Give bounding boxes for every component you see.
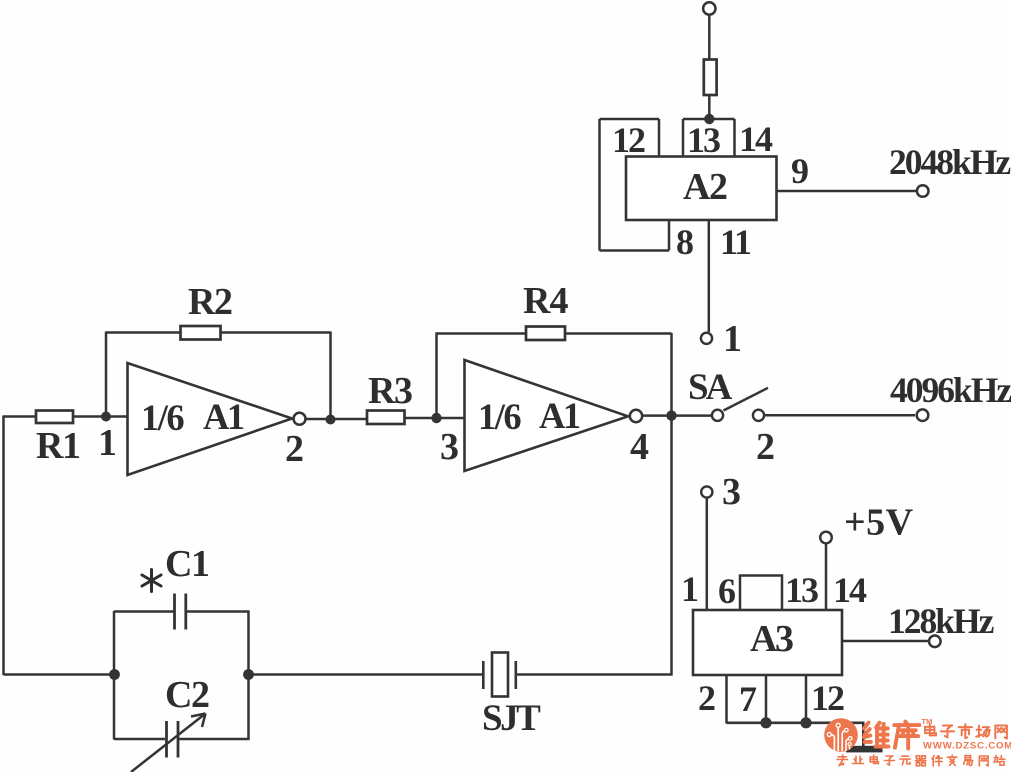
svg-text:C1: C1 xyxy=(165,543,209,585)
svg-text:+5V: +5V xyxy=(844,502,914,544)
terminal 128kHz xyxy=(929,636,941,648)
wire: R1 to node 1 xyxy=(73,415,128,418)
switch SA contact 3 (to A3 pin 1) xyxy=(701,486,712,497)
wire: R3 to node 3 xyxy=(404,417,465,420)
wire: A3 pin 2 xyxy=(725,675,728,724)
inverter U1a output bubble xyxy=(294,413,306,425)
jumper box on A3 pins 6-13 xyxy=(740,576,782,611)
svg-text:8: 8 xyxy=(676,222,693,262)
svg-text:4096kHz: 4096kHz xyxy=(890,370,1011,410)
watermark text 维库 xyxy=(864,723,889,747)
svg-text:12: 12 xyxy=(612,120,645,160)
svg-text:2: 2 xyxy=(285,428,303,470)
wire: A3 pin 12 xyxy=(805,675,808,724)
wire: resistor to node 13/14 xyxy=(708,95,711,119)
watermark text 专业电子元器件交易网站 xyxy=(837,755,848,766)
wire: C-box left leg xyxy=(113,611,116,740)
svg-text:SJT: SJT xyxy=(482,698,541,739)
wire: A3 bottom tie bar to ground xyxy=(727,721,865,724)
wire: C-box top (right of C1) xyxy=(187,610,250,613)
resistor R3 xyxy=(367,411,405,425)
IC A3 xyxy=(693,610,842,675)
svg-text:12: 12 xyxy=(811,678,844,718)
svg-text:4: 4 xyxy=(630,426,649,468)
watermark logo circle xyxy=(824,718,858,752)
svg-text:A1: A1 xyxy=(539,395,580,436)
wire: left vertical rail xyxy=(2,416,5,675)
terminal +5V xyxy=(820,532,832,544)
svg-text:2: 2 xyxy=(756,426,774,468)
svg-text:14: 14 xyxy=(739,119,773,159)
svg-text:3: 3 xyxy=(722,471,740,513)
wire: feedback/crystal right vertical rail xyxy=(670,333,673,676)
svg-text:SA: SA xyxy=(688,367,733,408)
variable capacitor C2 arrow xyxy=(131,714,206,772)
wire: crystal to right rail xyxy=(517,673,673,676)
resistor R2 xyxy=(181,326,221,340)
crystal SJT body xyxy=(492,653,508,697)
svg-text:3: 3 xyxy=(440,426,458,468)
wire: left rail to R1 xyxy=(3,415,38,418)
wire: A2 pin 12 loop top xyxy=(600,118,660,121)
ground xyxy=(846,746,883,753)
wire: R4 feedback top xyxy=(436,332,672,335)
wire: C-box bottom (left of C2) xyxy=(114,738,165,741)
wire: A2 pin 8 xyxy=(668,220,671,251)
op-amp inverter U1a (1/6 A1) xyxy=(128,363,293,475)
svg-text:R3: R3 xyxy=(368,370,412,412)
svg-text:1: 1 xyxy=(723,318,741,360)
wire: C-box right leg xyxy=(247,611,250,740)
op-amp inverter U1b (1/6 A1) xyxy=(465,360,629,471)
svg-text:2048kHz: 2048kHz xyxy=(889,142,1010,182)
junction dot at pin2 node xyxy=(326,415,336,425)
svg-text:A1: A1 xyxy=(203,396,244,437)
node: C-box right junction xyxy=(243,669,254,680)
svg-text:9: 9 xyxy=(791,151,808,191)
resistor R4 xyxy=(526,327,565,341)
svg-text:C2: C2 xyxy=(165,674,209,716)
watermark text 电子市场网 xyxy=(925,724,936,735)
svg-text:11: 11 xyxy=(720,222,751,262)
node 1 (junction dot) xyxy=(101,412,111,422)
wire: R2 feedback right leg xyxy=(329,332,332,420)
switch SA contact 2 xyxy=(753,410,764,421)
svg-text:1: 1 xyxy=(98,422,116,464)
wire: bubble pin2 to node xyxy=(305,418,368,421)
wire: C-box bottom (right of C2) xyxy=(179,738,250,741)
wire: A2 pin 14 xyxy=(733,119,736,157)
wire: pin12-pin8 loop bottom xyxy=(600,249,670,252)
capacitor C2 plates (variable) xyxy=(165,721,168,758)
wire: A2 pin 11 down to contact 1 xyxy=(708,220,711,332)
wire: +5V to A3 pin 14 xyxy=(825,543,828,610)
wire: terminal to resistor xyxy=(708,15,711,60)
IC A2 xyxy=(626,157,777,221)
wire: pin4 to SA xyxy=(642,414,712,417)
svg-text:A3: A3 xyxy=(750,618,793,660)
wire: C-box top (left of C1) xyxy=(114,610,174,613)
node 3 (junction dot) xyxy=(431,413,441,423)
svg-text:R1: R1 xyxy=(36,425,80,467)
junction dot A3 pin 12 xyxy=(800,717,811,728)
wire: A2 pin 13 xyxy=(682,119,685,157)
crystal SJT right plate xyxy=(514,661,517,689)
junction dot A3 pin 7 xyxy=(760,717,771,728)
watermark logo circuit traces xyxy=(827,723,852,751)
terminal 2048kHz xyxy=(917,185,929,197)
wire: pins 13-14 tie bar xyxy=(683,118,735,121)
asterisk mark near C1 xyxy=(142,570,161,592)
wire: contact 3 to A3 xyxy=(706,498,709,610)
terminal: top supply xyxy=(703,2,715,14)
wire: rail to C-box xyxy=(4,673,116,676)
switch SA common contact xyxy=(712,410,723,421)
wire: A2 pin 9 output xyxy=(777,190,917,193)
wire: R2 feedback left leg xyxy=(105,332,108,417)
svg-text:R4: R4 xyxy=(523,280,568,322)
capacitor C1 plates xyxy=(173,594,176,630)
resistor (vertical, above A2) xyxy=(704,60,717,96)
svg-text:128kHz: 128kHz xyxy=(888,601,994,641)
wire: R4 feedback left leg xyxy=(435,333,438,419)
junction dot above A2 pin13 xyxy=(704,114,714,124)
node: C-box left junction xyxy=(109,669,120,680)
svg-text:14: 14 xyxy=(833,570,867,610)
node 4 (junction dot) xyxy=(666,410,676,420)
terminal 4096kHz xyxy=(917,409,929,421)
svg-text:13: 13 xyxy=(687,120,720,160)
svg-text:13: 13 xyxy=(785,570,818,610)
svg-text:A2: A2 xyxy=(683,166,727,208)
wire: pin12-pin8 loop left leg xyxy=(598,119,601,251)
svg-text:1/6: 1/6 xyxy=(141,397,184,438)
svg-text:1/6: 1/6 xyxy=(478,396,521,437)
wire: A2 pin 12 stub xyxy=(658,119,661,157)
wire: A3 pin 7 xyxy=(765,675,768,724)
resistor R1 xyxy=(36,411,73,424)
svg-text:2: 2 xyxy=(698,678,715,718)
svg-text:R2: R2 xyxy=(188,281,232,323)
crystal SJT left plate xyxy=(482,661,485,689)
wire: R2 feedback top xyxy=(106,331,331,334)
svg-text:WWW.DZSC.COM: WWW.DZSC.COM xyxy=(923,741,1011,752)
switch SA contact 1 (to A2 pin 11) xyxy=(701,333,712,344)
svg-text:6: 6 xyxy=(718,571,735,611)
svg-text:1: 1 xyxy=(681,569,698,609)
inverter U1b output bubble xyxy=(630,410,642,422)
wire: down to ground xyxy=(862,723,865,747)
switch SA blade xyxy=(724,388,769,411)
wire: A3 pin 9 output xyxy=(842,640,928,643)
wire: SA to 4096kHz terminal xyxy=(765,414,916,417)
svg-text:7: 7 xyxy=(739,679,757,719)
wire: C-box to crystal xyxy=(249,673,483,676)
